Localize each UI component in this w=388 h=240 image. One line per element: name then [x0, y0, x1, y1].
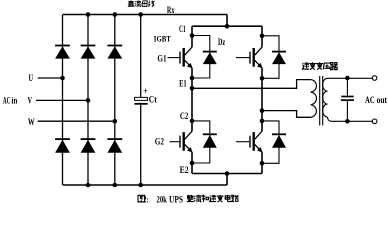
label caption 图2: 20k UPS 整流和逆变电路	[138, 195, 239, 202]
transformer T1 core	[320, 76, 323, 126]
svg-text:+: +	[143, 86, 148, 96]
wire: right leg upper segment	[261, 26, 263, 47]
wire: bottom rail rise	[226, 174, 228, 186]
svg-text:UPS: UPS	[169, 195, 183, 205]
svg-text:E1: E1	[179, 80, 187, 90]
wire: left midpoint to transformer primary top	[192, 80, 311, 89]
node dots top bus	[86, 12, 143, 17]
diode (freewheel lower-left)	[203, 134, 217, 148]
diode (freewheel upper-right)	[272, 52, 286, 65]
node dot V junction	[86, 98, 91, 103]
wire: inverter top rail	[192, 25, 262, 27]
svg-text:W: W	[28, 118, 35, 128]
capacitor Ct	[134, 15, 147, 186]
svg-text:out: out	[377, 96, 388, 106]
node dot inverter rail junction	[225, 24, 230, 29]
svg-text:C1: C1	[179, 25, 186, 35]
node dots bottom bus	[86, 183, 143, 188]
svg-text:Ct: Ct	[149, 94, 157, 104]
svg-text:20k: 20k	[157, 195, 168, 205]
wire: diode branch upper-right	[262, 36, 279, 79]
wire: diode branch lower-left	[192, 121, 210, 163]
svg-text:V: V	[28, 97, 32, 107]
svg-text:G2: G2	[155, 138, 164, 148]
wire: right leg lower segment	[261, 152, 263, 174]
wire: left leg middle segment	[191, 68, 193, 132]
node dots right leg	[260, 34, 265, 166]
wire: rectifier leg 3	[114, 15, 116, 186]
svg-text:U: U	[29, 74, 34, 84]
svg-text:AC: AC	[3, 96, 11, 106]
wire: diode branch upper-left	[192, 36, 210, 79]
diode D4 (lower leg1)	[55, 139, 70, 153]
diode D2 (upper leg2)	[81, 46, 96, 59]
node dot bottom rail junction	[225, 171, 230, 176]
wire: diode branch lower-right	[262, 121, 279, 163]
transistor Q1 (IGBT upper-left)	[168, 47, 193, 68]
svg-text:C2: C2	[180, 112, 189, 122]
diode (freewheel lower-right)	[272, 134, 286, 148]
label 逆变变压器 (inverter transformer, drawn strokes)	[302, 62, 338, 69]
diode D3 (upper leg3)	[107, 46, 122, 59]
node dot U junction	[60, 76, 65, 81]
wire: DC bus bottom	[63, 184, 227, 186]
label 直流母线 (DC bus, drawn strokes)	[128, 1, 155, 7]
wire: secondary top lead	[328, 77, 373, 79]
wire: left leg upper segment	[191, 26, 193, 47]
terminal: AC out bottom	[372, 119, 377, 124]
node dots output	[345, 76, 350, 124]
wire: secondary bottom lead	[328, 117, 373, 121]
diode D5 (lower leg2)	[81, 139, 96, 153]
svg-text:2:: 2:	[143, 195, 148, 205]
svg-text:Dz: Dz	[218, 38, 226, 48]
transistor Q2 (IGBT lower-left)	[170, 131, 193, 152]
node dot W junction	[113, 119, 118, 124]
node dots left leg	[190, 33, 195, 165]
svg-text:Rx: Rx	[167, 6, 175, 16]
wire: phase W lead	[38, 120, 115, 122]
wire: phase V lead	[36, 99, 88, 101]
transistor Q3 (IGBT upper-right)	[236, 47, 263, 68]
wire: right midpoint to transformer primary bottom	[262, 111, 311, 118]
diode D1 (upper leg1)	[55, 46, 70, 59]
capacitor C output filter	[341, 78, 354, 121]
svg-text:IGBT: IGBT	[154, 34, 172, 43]
transformer T1 secondary winding	[323, 78, 328, 117]
svg-text:E2: E2	[180, 166, 189, 176]
wire: left leg lower segment	[191, 152, 193, 174]
diode Dz (freewheel upper-left)	[203, 52, 217, 65]
wire: right leg middle segment	[261, 68, 263, 132]
transistor Q4 (IGBT lower-right)	[236, 131, 263, 152]
wire: phase U lead	[38, 77, 63, 79]
svg-text:G1: G1	[157, 55, 166, 65]
svg-text:in: in	[11, 96, 17, 106]
wire: DC bus top	[63, 14, 227, 16]
wire: inverter bottom rail	[192, 173, 262, 175]
transformer T1 primary winding	[311, 80, 317, 118]
wire: rectifier leg 2	[87, 15, 89, 186]
diode D6 (lower leg3)	[107, 139, 122, 153]
wire: DC bus top drop to inverter rail	[226, 15, 228, 27]
terminal: AC out top	[372, 76, 377, 81]
svg-text:AC: AC	[365, 96, 375, 106]
wire: rectifier leg 1	[62, 15, 64, 186]
